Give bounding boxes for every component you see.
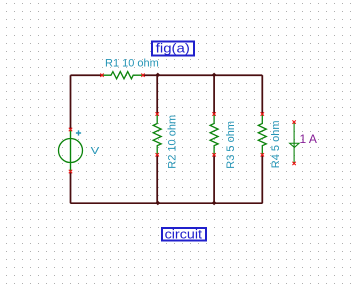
wire bottom segment (bottom-left corner to bottom-right corner) xyxy=(71,202,263,204)
resistor R3 xyxy=(210,114,218,155)
pin marker R3 bottom xyxy=(212,153,215,156)
junction node B (R3 top) xyxy=(212,73,217,78)
svg-text:circuit: circuit xyxy=(165,226,203,241)
wire right lower segment (R4 bottom pin to bottom-right corner) xyxy=(261,155,263,203)
wire right upper segment (top-right corner to R4 top pin) xyxy=(261,75,263,114)
svg-text:1 A: 1 A xyxy=(300,132,317,146)
label R4 5 ohm xyxy=(270,120,282,168)
resistor R2 xyxy=(153,114,161,155)
svg-text:V: V xyxy=(91,146,100,156)
junction R3 bottom xyxy=(212,201,217,206)
pin marker R2 top xyxy=(156,112,159,115)
svg-text:R4 5 ohm: R4 5 ohm xyxy=(270,120,282,168)
label 1 A xyxy=(300,132,317,146)
pin marker R2 bottom xyxy=(156,153,159,156)
wire R3 branch lower (R3 bottom pin to bottom wire) xyxy=(213,155,215,203)
wire R2 branch lower (R2 bottom pin to bottom wire) xyxy=(156,155,158,203)
label V xyxy=(91,146,100,156)
svg-text:fig(a): fig(a) xyxy=(156,41,190,55)
wire left lower segment (V bottom pin down to bottom-left corner) xyxy=(70,172,72,204)
svg-text:R1 10 ohm: R1 10 ohm xyxy=(105,58,159,70)
voltage source V xyxy=(59,130,83,172)
wire R3 branch upper (node B to R3 top pin) xyxy=(213,75,215,114)
pin marker I1 bottom xyxy=(292,162,295,165)
resistor R1 xyxy=(102,72,143,79)
pin marker R1 right xyxy=(141,74,144,77)
wire top segment (R1 right pin to node A and node B to top-right corner) xyxy=(143,74,262,76)
junction R2 bottom xyxy=(155,201,160,206)
wire R2 branch upper (node A to R2 top pin) xyxy=(156,75,158,114)
junction node A (R2 top) xyxy=(155,73,160,78)
polarity + of V xyxy=(76,130,81,135)
label R1 10 ohm xyxy=(105,58,159,70)
resistor R4 xyxy=(258,114,266,155)
pin marker R3 top xyxy=(212,112,215,115)
pin marker R4 top xyxy=(261,112,264,115)
pin marker V bottom xyxy=(69,170,72,173)
pin marker R4 bottom xyxy=(261,153,264,156)
pin marker I1 top xyxy=(292,120,295,123)
label R2 10 ohm xyxy=(167,115,179,169)
current source I1 xyxy=(290,122,300,163)
svg-text:R3 5 ohm: R3 5 ohm xyxy=(225,121,237,169)
pin marker R1 left xyxy=(100,74,103,77)
pin marker V top xyxy=(69,128,72,131)
wire left upper segment (top-left corner down to V top pin) xyxy=(70,75,72,129)
label R3 5 ohm xyxy=(225,121,237,169)
text box fig(a) xyxy=(152,41,194,55)
text box circuit xyxy=(162,226,206,241)
svg-text:R2 10 ohm: R2 10 ohm xyxy=(167,115,179,169)
wire top-left segment (node top-left corner to R1 left pin) xyxy=(71,74,103,76)
